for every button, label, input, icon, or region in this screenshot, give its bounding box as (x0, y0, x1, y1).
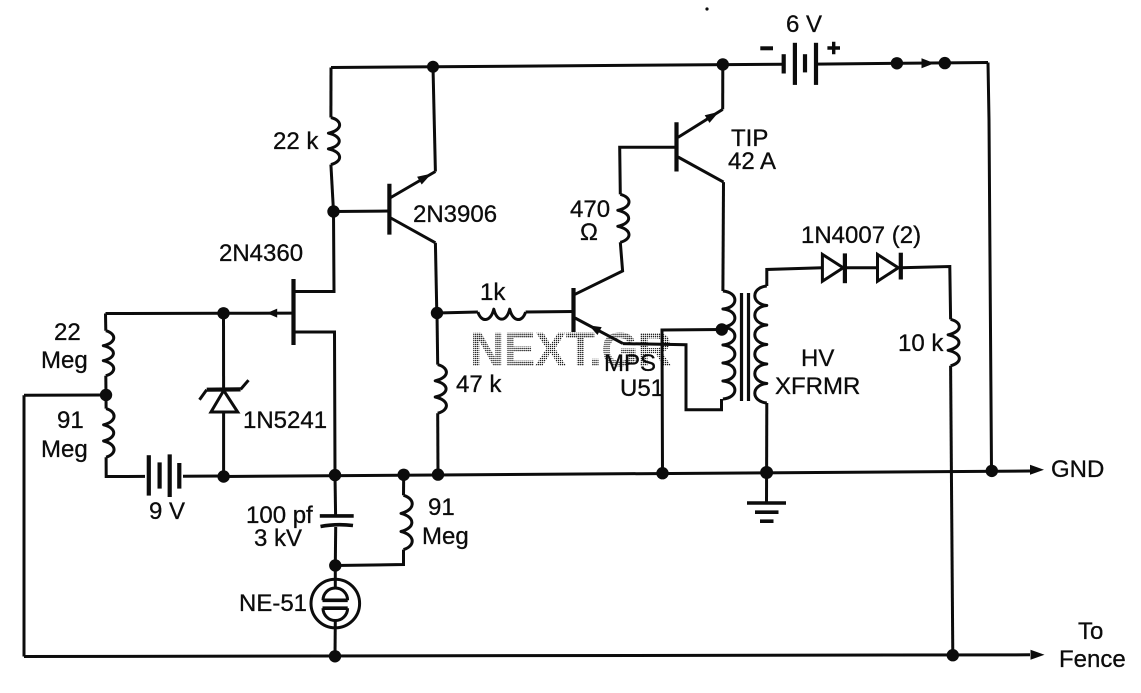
wire secondary top to diodes (767, 268, 823, 286)
wire zener top lead (222, 313, 225, 389)
arrow To Fence (1031, 650, 1045, 660)
battery 6V (784, 43, 816, 85)
label 3 kV (254, 525, 302, 552)
svg-text:3 kV: 3 kV (254, 525, 302, 552)
svg-text:2N4360: 2N4360 (219, 240, 303, 267)
label 1N4007 (2) (801, 222, 921, 249)
label 91 lower (428, 494, 455, 521)
wire 22Meg bottom lead (104, 376, 107, 395)
label 2N3906 (413, 201, 497, 228)
svg-text:GND: GND (1051, 456, 1104, 483)
label XFRMR (775, 373, 860, 400)
node 2N4360 source / rail (329, 469, 341, 481)
label Meg lower-left (41, 436, 88, 463)
node right rail / gnd (986, 465, 998, 477)
svg-text:U51: U51 (620, 375, 664, 402)
wire 2N3906 base (334, 210, 390, 214)
svg-text:9 V: 9 V (149, 498, 185, 525)
label 22 k (273, 128, 319, 155)
capacitor 100pf 3kV (320, 516, 354, 527)
svg-text:2N3906: 2N3906 (413, 201, 497, 228)
wire lamp bottom lead (334, 621, 337, 657)
label 100 pf (246, 502, 313, 529)
wire secondary bottom to rail (765, 403, 768, 473)
wire TIP emitter to rail (721, 65, 724, 110)
wire 47k top lead (436, 313, 440, 365)
transistor 2N3906 (389, 172, 435, 243)
wire primary tap to rail (662, 330, 722, 474)
wire 22k top lead (329, 68, 332, 118)
wire 2N4360 source to ground rail (294, 332, 336, 475)
arrow GND (1030, 465, 1044, 475)
label MPS (604, 350, 656, 377)
node 22k / 2N3906 base (327, 205, 339, 217)
wire 22Meg top lead (104, 314, 107, 331)
label 1N5241 (243, 407, 327, 434)
node 2N3906 emitter / top rail (427, 61, 439, 73)
label 22 (54, 319, 81, 346)
wire lamp top lead (334, 566, 337, 589)
label Meg (41, 347, 88, 374)
label GND (1051, 456, 1104, 483)
label 42 A (728, 148, 776, 175)
resistor 470 (618, 194, 629, 242)
svg-text:Meg: Meg (41, 347, 88, 374)
label Fence (1059, 646, 1126, 673)
diode D1 1N4007 (822, 253, 845, 283)
resistor 91Meg (104, 409, 114, 458)
transistor 2N4360 (JFET) (224, 279, 294, 345)
label Omega (580, 219, 598, 246)
label NE-51 (239, 590, 307, 617)
wire MPS emitter to primary bottom (623, 344, 722, 410)
resistor 10k (948, 319, 959, 366)
svg-text:MPS: MPS (604, 350, 656, 377)
svg-text:XFRMR: XFRMR (775, 373, 860, 400)
wire 91Meg top lead (105, 395, 108, 409)
watermark NEXT.GR (470, 324, 671, 377)
resistor 22Meg (103, 331, 113, 376)
wire capacitor bottom lead (334, 527, 337, 566)
svg-text:91: 91 (57, 407, 84, 434)
wire gate to 22Meg corner (106, 312, 224, 315)
label minus (760, 46, 773, 50)
svg-text:42 A: 42 A (728, 148, 776, 175)
diode zener 1N5241 (200, 380, 249, 412)
node 1k / 47k / collector (431, 307, 443, 319)
node lamp / fence rail (329, 650, 341, 662)
ground symbol (747, 473, 786, 522)
wire node to 91Meg lower (335, 550, 403, 566)
resistor 91Meg lower (401, 495, 412, 549)
label HV (801, 345, 834, 372)
svg-text:Ω: Ω (580, 219, 598, 246)
node top-right (939, 57, 951, 69)
wire battery to zener node (183, 475, 224, 478)
node 91Meg lower / rail (398, 469, 410, 481)
svg-text:1N5241: 1N5241 (243, 407, 327, 434)
wire capacitor top lead (334, 475, 338, 516)
node left tap (100, 389, 112, 401)
resistor 22k (328, 118, 339, 165)
wire 2N4360 drain from node (294, 212, 335, 292)
wire zener bottom lead (222, 412, 225, 476)
resistor 1k (478, 309, 526, 319)
label plus (827, 42, 840, 55)
diode D2 1N4007 (878, 253, 901, 282)
label 1k (480, 279, 506, 306)
node zener / ground rail (217, 470, 229, 482)
label 91 (57, 407, 84, 434)
node TIP42A emitter / top rail (717, 58, 729, 70)
wire 1k left lead (437, 312, 478, 313)
label 2N4360 (219, 240, 303, 267)
node transformer ground (760, 466, 773, 479)
svg-text:91: 91 (428, 494, 455, 521)
svg-text:Meg: Meg (422, 523, 469, 550)
label 6 V (786, 11, 822, 38)
node cap / lamp / 91Meg (329, 559, 341, 571)
svg-text:NE-51: NE-51 (239, 590, 307, 617)
label TIP (731, 125, 768, 152)
wire TIP collector to transformer (721, 182, 725, 291)
node gate / zener (217, 307, 229, 319)
svg-text:Fence: Fence (1059, 646, 1126, 673)
label 47 k (456, 371, 502, 398)
label To (1078, 618, 1103, 645)
wire top rail right of battery (816, 63, 988, 65)
svg-text:HV: HV (801, 345, 834, 372)
transistor MPS U51 (574, 288, 624, 344)
wire 2N3906 emitter to rail (433, 67, 435, 172)
wire fence rail (24, 655, 1030, 657)
wire 1k right lead to MPS base (526, 310, 574, 314)
svg-text:6 V: 6 V (786, 11, 822, 38)
svg-text:1k: 1k (480, 279, 506, 306)
wire 2N3906 collector down (435, 243, 436, 313)
wire tap to left margin (24, 394, 106, 397)
svg-text:10 k: 10 k (898, 330, 944, 357)
wire top rail left of battery (331, 64, 784, 67)
label 9 V (149, 498, 185, 525)
battery 9V (149, 454, 180, 497)
label Meg lower (422, 523, 469, 550)
node primary tap (716, 323, 728, 335)
wire diodes to 10k (901, 267, 951, 320)
label 10 k (898, 330, 944, 357)
transformer primary winding (723, 291, 735, 399)
arrow on top rail (922, 58, 935, 68)
transistor TIP42A (677, 109, 724, 182)
svg-text:1N4007 (2): 1N4007 (2) (801, 222, 921, 249)
wire ground rail (224, 471, 1030, 477)
label 470 (570, 196, 610, 223)
node after battery (891, 57, 903, 69)
wire left margin down (23, 395, 26, 656)
wire 22k bottom lead (331, 165, 334, 212)
lamp NE-51 (311, 579, 360, 628)
svg-text:22: 22 (54, 319, 81, 346)
transformer core (742, 293, 749, 401)
wire between diodes (845, 266, 878, 269)
svg-text:22 k: 22 k (273, 128, 319, 155)
wire 91Meg lower top lead (402, 475, 405, 496)
resistor 47k (435, 365, 446, 414)
node tap wire / rail (656, 467, 668, 479)
speck top center (705, 7, 708, 10)
wire TIP base corner (620, 147, 677, 194)
svg-text:Meg: Meg (41, 436, 88, 463)
node 47k / ground rail (432, 468, 444, 480)
wire right side vertical (988, 63, 992, 472)
node 10k / fence rail (947, 649, 959, 661)
svg-text:To: To (1078, 618, 1103, 645)
wire 47k bottom lead (436, 413, 439, 474)
wire 91Meg bottom to rail corner (106, 457, 145, 476)
label U51 (620, 375, 664, 402)
svg-text:47 k: 47 k (456, 371, 502, 398)
transformer secondary winding (755, 286, 767, 403)
wire 470 bottom to MPS collector (575, 242, 623, 294)
wire 10k bottom to fence rail (951, 366, 953, 655)
